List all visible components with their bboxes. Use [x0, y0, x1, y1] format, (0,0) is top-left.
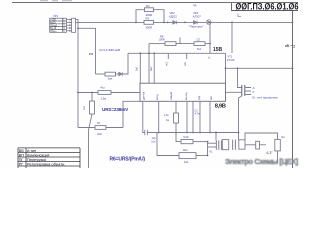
svg-text:R11: R11: [183, 148, 188, 152]
pin wire 187: [186, 101, 188, 132]
diode VD4: [119, 72, 123, 76]
svg-text:R6=URS/(Pm/U): R6=URS/(Pm/U): [110, 156, 146, 162]
svg-text:Rш: Rш: [101, 86, 105, 90]
pin wire 158: [158, 101, 160, 132]
svg-text:С2 0,1х630 мкФ: С2 0,1х630 мкФ: [99, 48, 121, 52]
wire y69 horizontal: [226, 67, 293, 69]
svg-text:100R: 100R: [159, 38, 165, 42]
testpoint stub 168: [167, 53, 169, 59]
diode VD2: [194, 21, 198, 25]
node 216 bus: [215, 132, 217, 134]
svg-text:ХР1: ХР1: [53, 14, 58, 18]
node 237 y69: [237, 67, 239, 69]
pin wire 143: [143, 101, 145, 132]
lower bus: [147, 132, 238, 134]
node Rsh left: [77, 92, 79, 94]
svg-text:URS=238mV: URS=238mV: [102, 107, 129, 112]
wire left vertical A: [77, 20, 79, 128]
relay K1 winding bars group2: [233, 140, 236, 150]
wire diode to rail corner: [123, 53, 128, 74]
relay K1 contact box: [239, 140, 245, 149]
wire vertical 140 rail to box: [139, 53, 141, 83]
node 294 y69: [292, 67, 294, 69]
svg-text:ВП: ВП: [19, 153, 24, 157]
node 200 bus: [199, 132, 201, 134]
wire pin1 to vertical: [76, 19, 79, 21]
svg-text:В - нет прозвонки: В - нет прозвонки: [253, 96, 278, 100]
wire contact mid to lamp: [245, 144, 256, 146]
node bus-right-corner: [292, 22, 294, 24]
resistor R3 body (in bus): [144, 21, 154, 25]
svg-text:ØØГ.ПЗ.Ø6.Ø1.Ø6: ØØГ.ПЗ.Ø6.Ø1.Ø6: [236, 1, 299, 11]
wire contact top to Rn: [245, 133, 278, 140]
wire lamp right: [260, 144, 267, 146]
svg-text:4,7м: 4,7м: [195, 113, 200, 116]
svg-text:упр: упр: [198, 95, 201, 100]
svg-text:Rн: Rн: [282, 136, 286, 139]
svg-text:1,5м: 1,5м: [101, 96, 107, 100]
relay K1 winding bars group1: [216, 140, 221, 150]
node R9 out: [209, 43, 211, 45]
svg-text:АЛ307: АЛ307: [193, 14, 202, 18]
node before VD1: [167, 22, 169, 24]
pin wire 176 upper: [175, 101, 177, 113]
wire R2 to bus: [154, 10, 165, 23]
resistor R2 body: [145, 8, 154, 12]
svg-text:вход: вход: [156, 94, 159, 100]
svg-text:КТ315: КТ315: [227, 58, 235, 62]
svg-text:ПГ: ПГ: [19, 158, 24, 162]
svg-text:2,2к: 2,2к: [164, 114, 169, 117]
svg-text:Общ~: Общ~: [50, 30, 57, 33]
wire R7 row: [78, 127, 123, 129]
connector XP1 table body: [50, 18, 67, 32]
pin wire 210: [209, 101, 211, 132]
wire R11 right: [196, 155, 208, 157]
wire Rn down: [277, 151, 279, 163]
capacitor C4 series in bus: [145, 130, 148, 135]
node 239 bus: [238, 132, 240, 134]
svg-text:5к1: 5к1: [197, 47, 202, 51]
wire 207 down: [207, 142, 209, 156]
svg-text:пд: пд: [193, 3, 197, 7]
svg-text:сВ: сВ: [285, 44, 290, 48]
wire row y74: [96, 73, 106, 75]
wire to R10: [176, 133, 181, 142]
wire vertical 92 down: [89, 93, 93, 169]
wire big box left: [231, 22, 233, 53]
legend table texts: [19, 149, 66, 167]
wire emitter down: [239, 96, 242, 140]
resistor R13 body: [174, 113, 179, 123]
svg-text:1к0: 1к0: [135, 66, 139, 71]
wire 157 down: [157, 133, 179, 156]
wire box bottom ext left: [123, 101, 140, 127]
svg-text:1к0: 1к0: [83, 106, 86, 110]
wire R8 row left: [149, 43, 165, 45]
wire bus pin to bars: [215, 133, 217, 141]
wire Rsh to box: [111, 92, 140, 94]
wire bus down at 210: [209, 22, 211, 53]
relay K1 body box: [222, 140, 228, 150]
wire R9 to node: [205, 43, 210, 45]
optocoupler U2 bars: [242, 85, 245, 96]
node bus 216: [215, 132, 217, 134]
connector XP1 pin texts: [50, 19, 65, 33]
node y69: [225, 67, 227, 69]
wire vertical 154 rail to box: [153, 53, 155, 83]
wire main bus: [76, 21, 293, 23]
svg-text:общий: общий: [169, 91, 173, 100]
node 187 bus: [186, 132, 188, 134]
svg-text:А тип: А тип: [27, 149, 36, 153]
pin wire 200: [199, 101, 201, 132]
wire 237 down: [238, 68, 242, 87]
svg-text:"Перегруз": "Перегруз": [189, 25, 204, 29]
svg-text:300R: 300R: [146, 26, 153, 30]
wire base: [226, 91, 242, 93]
wire mid rail: [128, 52, 226, 54]
node 176 bus: [175, 132, 177, 134]
resistor Rn body: [275, 139, 281, 151]
resistor R11 body (trimmer): [179, 153, 196, 159]
svg-text:тк2: тк2: [183, 62, 187, 66]
svg-text:Регулировка обратн.: Регулировка обратн.: [27, 161, 65, 166]
LED VD3: [206, 20, 211, 25]
wire to diode: [116, 73, 119, 75]
legend table: [18, 148, 80, 168]
node rail 149: [148, 52, 150, 54]
pin wire 176 lower: [175, 123, 177, 133]
svg-text:VT1: VT1: [228, 55, 233, 59]
cut-off text remnants top edge: [40, 0, 72, 2]
resistor Rsh body: [98, 91, 111, 95]
svg-text:1м: 1м: [166, 119, 169, 122]
svg-text:б: б: [253, 90, 255, 94]
resistor Rsh wire: [78, 92, 98, 94]
testpoint stub 186: [186, 53, 188, 59]
wire coil input b: [208, 146, 217, 148]
resistor R2 branch wire: [136, 10, 145, 23]
svg-text:R2: R2: [146, 4, 150, 8]
node 90 y92: [91, 92, 93, 94]
svg-text:УЗ: УЗ: [89, 52, 93, 56]
frame top line: [12, 2, 298, 4]
svg-text:3м0: 3м0: [97, 132, 102, 136]
node 210: [209, 22, 211, 24]
resistor R7 body: [95, 126, 106, 130]
wire branch to vertical B: [78, 28, 96, 74]
resistor R10 body: [181, 140, 193, 144]
svg-text:датчик: датчик: [143, 91, 146, 100]
svg-text:6,3°: 6,3°: [267, 151, 274, 155]
diode VD1: [173, 21, 177, 25]
svg-text:ВВ: ВВ: [19, 149, 24, 153]
svg-text:10н: 10н: [151, 141, 156, 144]
resistor R8 body: [165, 42, 176, 46]
svg-text:С5: С5: [197, 38, 201, 42]
svg-text:1мк: 1мк: [108, 77, 113, 81]
node 158 bus: [158, 132, 160, 134]
wire R8 to R9: [176, 43, 194, 45]
svg-text:выход: выход: [185, 92, 188, 100]
svg-text:R10: R10: [184, 135, 189, 139]
svg-text:R3: R3: [146, 17, 150, 21]
svg-text:КД522: КД522: [169, 14, 177, 18]
svg-text:2: 2: [293, 44, 295, 48]
frame right border: [292, 11, 294, 169]
wire rail corner down right: [225, 53, 227, 83]
node 210 bus: [209, 132, 211, 134]
title block corner mark: [238, 13, 241, 16]
node R2 branch: [135, 22, 137, 24]
wire vertical 149: [148, 44, 150, 84]
sensor module box: [140, 83, 226, 101]
node R11 right: [207, 155, 209, 157]
svg-text:4м7: 4м7: [149, 66, 153, 71]
svg-text:Компенсация: Компенсация: [27, 153, 49, 157]
svg-text:10к: 10к: [184, 160, 189, 164]
title block box (doc number cell): [232, 3, 299, 11]
resistor R9 body: [194, 42, 205, 46]
svg-text:Электро Схемы [ЦЕХ]: Электро Схемы [ЦЕХ]: [225, 157, 299, 166]
node branch: [77, 27, 79, 29]
connector XP1 pin body: [72, 18, 76, 32]
svg-text:тк1: тк1: [165, 62, 169, 66]
resistor R1 body: [90, 101, 95, 114]
node rail 140: [139, 52, 141, 54]
node 193 bus: [192, 132, 194, 134]
node R2 out: [163, 22, 165, 24]
svg-text:R7: R7: [97, 121, 101, 125]
pin wire 193: [192, 101, 194, 132]
lamp HL1 body: [256, 141, 260, 149]
optocoupler U2 pins: [246, 88, 252, 95]
node 232 bus: [231, 22, 233, 24]
svg-text:8,9В: 8,9В: [215, 104, 226, 110]
svg-text:15В: 15В: [213, 47, 223, 53]
svg-text:РГ: РГ: [19, 162, 23, 166]
wire R10 right: [193, 141, 208, 143]
svg-text:К1: К1: [210, 151, 213, 154]
wire coil input a: [208, 142, 217, 144]
node after VD1: [184, 22, 186, 24]
stub at 180: [179, 38, 181, 44]
resistor C1 1mk body: [105, 72, 116, 76]
node 207 r10: [207, 141, 209, 143]
output terminal right edge: [285, 44, 295, 49]
connector XP1 pin stubs: [67, 19, 72, 32]
svg-text:v1: v1: [208, 57, 211, 60]
node rail 154: [153, 52, 155, 54]
